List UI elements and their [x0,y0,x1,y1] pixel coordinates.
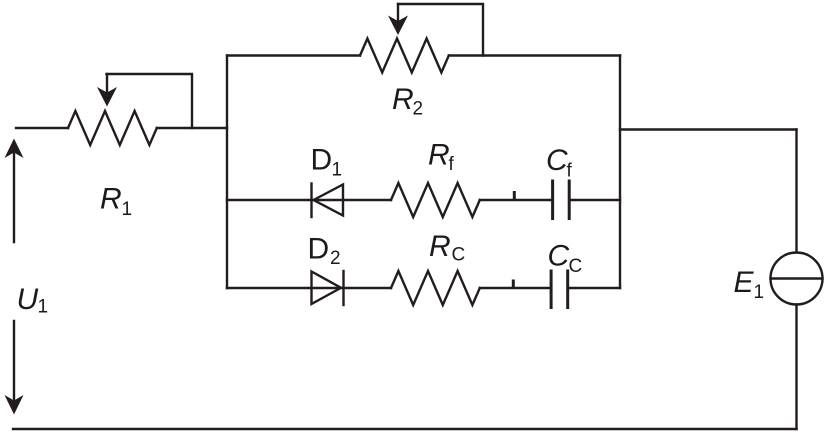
svg-text:C: C [548,240,570,273]
svg-text:C: C [546,144,568,177]
svg-text:2: 2 [330,248,341,269]
svg-text:U: U [17,283,39,316]
svg-text:C: C [452,245,466,266]
svg-text:R: R [392,83,414,116]
svg-text:C: C [569,256,583,277]
svg-text:1: 1 [122,199,133,220]
svg-text:1: 1 [332,160,343,181]
svg-text:R: R [100,183,122,216]
svg-text:D: D [308,233,330,266]
svg-text:f: f [567,161,573,182]
svg-text:1: 1 [754,282,765,303]
svg-text:R: R [429,230,451,263]
svg-text:D: D [311,144,333,177]
svg-text:2: 2 [413,99,424,120]
svg-text:E: E [734,266,755,299]
svg-text:R: R [428,139,450,172]
svg-text:1: 1 [38,297,49,318]
svg-text:f: f [449,154,455,175]
